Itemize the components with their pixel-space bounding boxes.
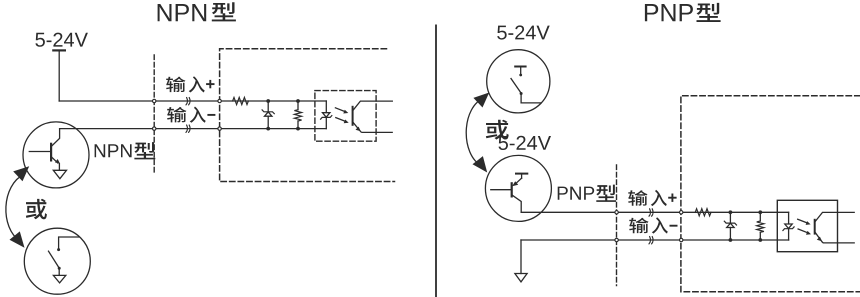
switch output L-wire [521, 94, 541, 103]
wire: bottom rail 输入- [60, 128, 327, 130]
dashed boundary line (sensor side) [153, 55, 155, 175]
switch sensor circle (PNP alternative) [487, 50, 550, 113]
junction dot D1 bottom [266, 127, 270, 131]
label 入 row1 L [189, 76, 205, 92]
opto LED branch wire [325, 101, 327, 112]
minus sign row2 L [207, 114, 215, 116]
opto LED [785, 224, 792, 229]
minus sign row2 R [670, 225, 678, 227]
switch sensor circle (alternative) [24, 228, 90, 294]
plus sign row1 L [206, 80, 214, 88]
wire break mark on 输入- rail [649, 237, 653, 244]
label 输 row2 L [167, 107, 186, 123]
zener diode D2 [729, 212, 731, 223]
curved double-headed arrow (or) [466, 98, 485, 167]
wire: top rail 输入+ (PNP out) [521, 211, 788, 213]
phototransistor collector [815, 212, 855, 222]
title PNP [645, 4, 693, 21]
light arrow 1 [335, 108, 344, 112]
node input- at dashed line [153, 127, 156, 130]
node input+ at dashed line [615, 211, 618, 214]
node input+ at dashed line [153, 99, 156, 102]
wire: 5-24V stem down to input+ rail [58, 52, 60, 102]
node input- at dashed line [615, 238, 618, 241]
emitter open arrow (to 0V) [53, 170, 66, 178]
power terminal 5-24V bar [53, 49, 65, 51]
curved double-headed arrow (or) [6, 174, 25, 241]
wire break mark on 输入+ rail [649, 209, 653, 216]
opto phototransistor base bar [814, 220, 816, 234]
node input- at box edge [680, 238, 683, 241]
optocoupler U2 box [777, 200, 837, 251]
label 输 row1 L [166, 77, 185, 93]
label 入 row2 L [190, 107, 206, 123]
junction dot R2 bottom [296, 127, 300, 131]
transistor Q2 emitter with arrow into base [517, 178, 522, 182]
label 5-24V (left) [35, 33, 87, 47]
label 型 (NPN) [134, 142, 155, 159]
light arrow 2 [798, 229, 807, 233]
switch power T-bar [515, 66, 525, 68]
transistor Q2 base bar [511, 183, 513, 196]
junction dot D2 top [729, 210, 733, 214]
node input- at box edge [218, 127, 221, 130]
opto LED [323, 113, 330, 118]
PNP sensor circle [485, 155, 551, 221]
resistor R1 (series input) [233, 97, 249, 104]
resistor R2 (shunt) [297, 101, 299, 110]
label PNP (sensor) [558, 187, 595, 200]
switch contact dot (top) [57, 248, 60, 251]
junction dot R4 bottom [758, 238, 762, 242]
label 型 (PNP) [596, 185, 616, 202]
label 入 row2 R [652, 217, 668, 233]
switch output stem [58, 268, 60, 275]
divider line between NPN and PNP halves [435, 25, 437, 297]
switch contact dot (top) [519, 74, 522, 77]
transistor Q1 base bar [50, 144, 52, 161]
label 5-24V (right mid) [499, 136, 552, 150]
ground symbol [515, 274, 527, 282]
transistor Q1 emitter with arrow [51, 157, 58, 163]
zener diode D1 [267, 101, 269, 112]
label 5-24V (right top) [497, 25, 549, 39]
opto LED branch wire [788, 212, 790, 223]
switch blade [511, 79, 521, 94]
NPN sensor circle [23, 122, 89, 188]
switch open arrow down [53, 275, 65, 283]
PNP power T-bar [516, 173, 527, 175]
optocoupler U1 dashed box [315, 91, 376, 142]
phototransistor collector [353, 101, 393, 111]
junction dot R2 top [296, 99, 300, 103]
light arrow 2 [336, 118, 345, 122]
dashed enclosure box (controller side, open right) [220, 49, 395, 182]
wire: bottom rail 输入- [521, 239, 789, 241]
phototransistor emitter with arrow [815, 232, 855, 243]
label 输 row1 R [628, 190, 647, 206]
label 或 (left) [26, 199, 47, 220]
label NPN (sensor) [95, 144, 132, 157]
node input+ at box edge [218, 99, 221, 102]
transistor Q1 collector [51, 129, 60, 147]
node input+ at box edge [680, 211, 683, 214]
resistor R3 (series input) [695, 209, 711, 216]
dashed boundary line (sensor side) [616, 165, 618, 286]
transistor Q2 collector [512, 195, 522, 213]
light arrow 1 [798, 219, 807, 223]
label 输 row2 R [629, 218, 648, 234]
wire: 0V drop to ground [520, 240, 522, 274]
transistor Q2 base wire [491, 189, 512, 191]
title NPN [158, 4, 207, 21]
switch blade [49, 251, 60, 268]
label 入 row1 R [651, 190, 667, 206]
resistor R4 (shunt) [759, 212, 761, 221]
transistor Q2 emitter wire [521, 174, 523, 179]
junction dot D2 bottom [729, 238, 733, 242]
title 型 (right) [697, 3, 721, 22]
plus sign row1 R [668, 194, 676, 202]
phototransistor emitter with arrow [353, 122, 393, 133]
wire: top rail 输入+ [59, 100, 326, 102]
switch contact dot (bottom) [58, 267, 61, 270]
switch top contact L-wire [59, 237, 79, 249]
junction dot R4 top [758, 210, 762, 214]
dashed enclosure box (controller side, open right) [681, 96, 860, 292]
junction dot D1 top [266, 99, 270, 103]
title 型 (left) [212, 2, 236, 21]
opto phototransistor base bar [352, 107, 354, 125]
wire break mark on 输入- rail [186, 125, 190, 132]
label 或 (right) [486, 120, 509, 140]
switch contact dot (bottom) [520, 92, 523, 95]
transistor Q1 base wire [29, 151, 51, 153]
wire break mark on 输入+ rail [186, 98, 190, 105]
